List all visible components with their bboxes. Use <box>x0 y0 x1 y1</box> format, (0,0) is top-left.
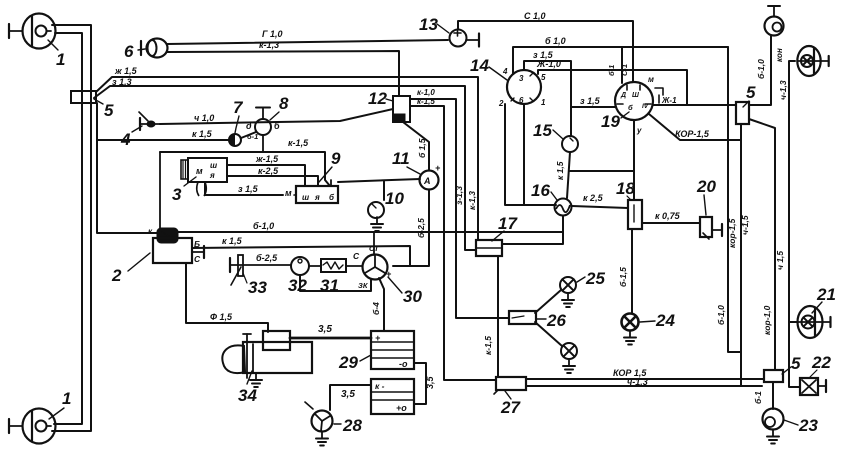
svg-text:8: 8 <box>279 94 289 113</box>
wire к 1,5 (lamp 15 to fuse 16) <box>567 152 570 198</box>
rear lamp 21 <box>798 306 823 338</box>
svg-text:к-1,5: к-1,5 <box>483 336 493 355</box>
svg-text:б-1,0: б-1,0 <box>253 221 274 231</box>
wire КОР 1,5 (bottom run) <box>526 378 764 380</box>
svg-text:кор-1,5: кор-1,5 <box>727 218 737 248</box>
thermal fuse 16 <box>555 199 572 216</box>
svg-text:3,5: 3,5 <box>341 389 355 400</box>
svg-text:23: 23 <box>798 416 818 435</box>
wire branch to fuse 10 <box>383 181 385 200</box>
lamp 25 (upper) <box>560 277 576 293</box>
wire Ф 1,5 (switch 2 to starter relay) <box>186 263 268 332</box>
wire б 1,5 (connector 12 to ammeter 11) <box>403 122 429 170</box>
svg-text:ЗК: ЗК <box>358 281 369 290</box>
connector 5 (right) <box>736 102 749 124</box>
svg-text:кон: кон <box>775 48 784 62</box>
ground switch 28 <box>312 411 333 432</box>
svg-text:22: 22 <box>811 353 831 372</box>
svg-text:б-1: б-1 <box>753 391 763 404</box>
svg-text:к-1,5: к-1,5 <box>417 97 435 106</box>
wire 32-31 <box>309 265 321 267</box>
wire б-1 (connector 5 to horn 23) <box>772 382 774 409</box>
svg-text:+: + <box>435 163 441 173</box>
fuse 10 <box>368 202 384 218</box>
svg-text:3,5: 3,5 <box>425 375 435 389</box>
junction block at switch 2 <box>157 228 178 243</box>
svg-text:м: м <box>648 75 654 84</box>
svg-text:к-1,0: к-1,0 <box>417 88 435 97</box>
svg-text:21: 21 <box>816 285 836 304</box>
svg-text:Г 1,0: Г 1,0 <box>262 29 283 39</box>
ground (switch 28) <box>321 432 323 439</box>
lamp 22 <box>800 378 818 395</box>
wire б-4 (switch 30 to battery 29) <box>379 278 384 331</box>
ammeter 11 <box>420 171 439 190</box>
svg-text:3: 3 <box>519 74 524 83</box>
fuse block 31 <box>321 259 346 272</box>
fuse block 17 <box>476 240 502 256</box>
svg-text:з-1,3: з-1,3 <box>454 186 464 205</box>
svg-text:9: 9 <box>331 149 341 168</box>
plug socket 14 <box>507 70 541 104</box>
svg-text:ч 1,0: ч 1,0 <box>194 113 214 123</box>
wire ч-1,3 (bottom run) <box>526 385 762 387</box>
svg-text:б-4: б-4 <box>371 302 381 315</box>
svg-text:17: 17 <box>498 214 518 233</box>
svg-text:32: 32 <box>288 276 307 295</box>
wire ж-1,5 (regulator 3 Ш to relay 9) <box>227 165 305 186</box>
wire fuse 16 down to fuse block 17 <box>502 216 563 244</box>
svg-text:С 1,0: С 1,0 <box>524 11 546 21</box>
ground (horn 23) <box>772 430 774 437</box>
svg-text:к 1,5: к 1,5 <box>192 129 213 139</box>
svg-text:5: 5 <box>746 83 756 102</box>
wire Г 1,0 (lamp 6 to horn 13) <box>167 40 448 44</box>
wire Ж-1,0 (socket 14 pin 5 to switch 19 right) <box>538 70 687 105</box>
svg-text:я: я <box>314 193 320 202</box>
svg-text:ч 1,5: ч 1,5 <box>775 251 785 270</box>
svg-text:+о: +о <box>396 403 407 413</box>
starter relay 9 <box>296 186 338 203</box>
connector 5 (left) <box>71 91 96 103</box>
svg-text:ш: ш <box>302 193 309 202</box>
wire ч-1,5 (right frame vertical) <box>740 124 742 386</box>
svg-text:4: 4 <box>502 67 508 76</box>
resistor 20 <box>700 217 712 237</box>
wire ч-1,3 (connector 5 diagonal down) <box>749 119 775 370</box>
horn relay 23 <box>763 409 784 430</box>
svg-text:14: 14 <box>470 56 489 75</box>
svg-text:С: С <box>353 251 360 261</box>
wire к 2,5 (fuse 16 to fuse 18) <box>572 206 628 208</box>
svg-text:ж-1,5: ж-1,5 <box>255 154 279 164</box>
svg-text:1: 1 <box>56 50 65 69</box>
svg-text:1: 1 <box>62 389 71 408</box>
svg-text:5: 5 <box>541 73 546 82</box>
svg-text:КОР-1,5: КОР-1,5 <box>675 129 710 139</box>
svg-text:Д: Д <box>620 92 626 99</box>
svg-text:33: 33 <box>248 278 267 297</box>
wire lamp 21 to frame <box>789 321 797 323</box>
wire к-1,5 (switch 8 to relay 9) <box>160 152 330 186</box>
svg-text:3: 3 <box>172 185 182 204</box>
svg-text:25: 25 <box>585 269 605 288</box>
wire pins 2/6 of socket 14 down to fuse 16 <box>505 104 556 205</box>
connector 5 (bottom right) <box>764 370 783 382</box>
svg-text:б-1,5: б-1,5 <box>618 267 628 287</box>
svg-text:б: б <box>274 121 280 131</box>
svg-text:б-1,0: б-1,0 <box>716 305 726 325</box>
svg-text:5: 5 <box>104 101 114 120</box>
svg-text:Ж-1,0: Ж-1,0 <box>536 59 561 69</box>
wire к-1,5 (fuse 17 down to connector 27) <box>497 256 499 377</box>
svg-text:12: 12 <box>368 89 387 108</box>
wire к 1,5 (switch 2 to starter relay 30) <box>192 246 410 266</box>
svg-text:13: 13 <box>419 15 438 34</box>
svg-text:м: м <box>285 188 292 198</box>
svg-text:к-1,5: к-1,5 <box>288 138 309 148</box>
svg-text:7: 7 <box>233 98 244 117</box>
wire rear lamp to frame <box>789 61 800 387</box>
svg-text:б: б <box>628 103 633 112</box>
wire У (switch 19 down to fuse 18) <box>633 120 635 200</box>
svg-text:б 1,5: б 1,5 <box>417 138 427 158</box>
svg-text:к 1,5: к 1,5 <box>555 161 565 180</box>
wire к 0,75 (fuse 18 to resistor 20) <box>642 222 700 224</box>
ground (lamp 24) <box>629 331 631 338</box>
svg-text:з 1,3: з 1,3 <box>112 77 132 87</box>
wire to ammeter 11 <box>338 179 420 182</box>
svg-text:к -: к - <box>375 381 385 391</box>
svg-text:ж 1,5: ж 1,5 <box>114 66 138 76</box>
connector 27 <box>496 377 526 390</box>
svg-text:16: 16 <box>531 181 550 200</box>
headlight 1 (bottom left) <box>23 409 56 444</box>
wire з 1,3 (left run) <box>94 86 476 250</box>
svg-text:д: д <box>246 121 252 131</box>
clearance lamp (top right) <box>765 17 784 36</box>
svg-text:кор-1,0: кор-1,0 <box>762 305 772 335</box>
wire from connector 5 down (к 1,5 branch) <box>97 103 157 233</box>
svg-text:24: 24 <box>655 311 675 330</box>
svg-text:29: 29 <box>338 353 358 372</box>
svg-text:ч-1,3: ч-1,3 <box>627 377 648 387</box>
svg-text:б-1,0: б-1,0 <box>756 59 766 79</box>
horn 13 <box>450 30 467 47</box>
svg-text:к-1,3: к-1,3 <box>259 40 279 50</box>
svg-text:26: 26 <box>546 311 566 330</box>
wire з 1,5 (socket 14 pin 3 to switch 19, lamp 15) <box>524 61 571 136</box>
svg-text:11: 11 <box>392 149 410 168</box>
svg-text:-о: -о <box>399 359 408 369</box>
wire к 1,5 (to fuse 7 / switch 8) <box>97 139 229 141</box>
wire КОР-1,5 (switch 19 to right frame) <box>649 114 741 140</box>
svg-text:+: + <box>375 333 381 343</box>
wire к-1,5 (connector 12 output, long left vertical) <box>410 106 496 380</box>
wire СТ (switch 30 to б-1,0) <box>373 232 375 255</box>
headlight 1 (top left) <box>23 14 56 49</box>
wire к-1,3 (lamp 6 to connector 12) <box>167 51 399 96</box>
wire 26 to lamp 25 (lower) <box>535 322 562 346</box>
wire ч 1,0 (switch 4 to connector 12) <box>160 109 393 124</box>
wire 31-30 <box>346 265 362 267</box>
wire б-1,0 (connector 5 to clearance lamp) <box>749 36 771 105</box>
svg-text:3,5: 3,5 <box>318 324 332 335</box>
wire б-1,0 (switch 2 to fuse 16) <box>178 231 562 233</box>
wire switch 19 to connector 5 (right) <box>653 104 736 106</box>
svg-text:2: 2 <box>498 99 504 108</box>
svg-text:ш: ш <box>210 161 217 170</box>
svg-text:А: А <box>423 176 431 186</box>
svg-text:6: 6 <box>124 42 134 61</box>
svg-text:10: 10 <box>385 189 404 208</box>
wire к-1,0 (connector 12 output) <box>410 99 509 318</box>
wire 3,5 (battery to ground switch 28) <box>330 385 371 410</box>
wire б-2,5 (ammeter 11 to starter relay 30) <box>393 190 429 266</box>
svg-text:С: С <box>194 254 201 264</box>
svg-text:б-2,5: б-2,5 <box>416 218 426 238</box>
control lamp 15 <box>562 136 578 152</box>
svg-text:20: 20 <box>696 177 716 196</box>
svg-text:к 1,5: к 1,5 <box>222 236 243 246</box>
lamp 25 (lower) <box>561 343 577 359</box>
svg-text:к 2,5: к 2,5 <box>583 193 604 203</box>
fuse 32 <box>291 257 309 275</box>
svg-text:к 0,75: к 0,75 <box>655 211 681 221</box>
wire: headlight feeds, left vertical pair <box>52 25 91 431</box>
svg-text:Ш: Ш <box>632 92 639 99</box>
wire 26 to lamp 25 (upper) <box>535 290 561 313</box>
svg-text:у: у <box>636 126 642 135</box>
wire к-2,5 (regulator 3 Я to relay 9) <box>227 176 318 186</box>
svg-text:5: 5 <box>791 354 801 373</box>
svg-text:30: 30 <box>403 287 422 306</box>
ignition switch 2 <box>153 238 192 263</box>
wire 3,5 (starter to battery 29) <box>290 337 371 340</box>
wire з 1,5 (generator to relay 9 М) <box>205 183 283 195</box>
ground (upper lamp 25) <box>567 293 569 300</box>
svg-text:2: 2 <box>111 266 122 285</box>
svg-text:27: 27 <box>500 398 521 417</box>
wire С 1,0 (horn 13 to switch 19) <box>458 21 633 82</box>
battery (lower section) <box>371 379 414 414</box>
connector 12 <box>393 96 410 122</box>
svg-text:Ф 1,5: Ф 1,5 <box>210 312 233 322</box>
svg-text:34: 34 <box>238 386 257 405</box>
wire б 1,0 (socket 14 to switch 19 / right frame) <box>513 47 728 74</box>
svg-text:ч-1,3: ч-1,3 <box>778 80 788 100</box>
ground (lower lamp 25) <box>568 359 570 366</box>
starter switch 30 <box>363 255 388 280</box>
plafond lamp 6 <box>147 39 168 58</box>
svg-text:м: м <box>196 166 203 176</box>
svg-text:б-2,5: б-2,5 <box>256 253 278 263</box>
switch 8 (turn signal) <box>255 119 271 135</box>
svg-text:Ж-1: Ж-1 <box>661 96 677 105</box>
switch 33 (plug) <box>229 258 231 272</box>
svg-text:18: 18 <box>616 179 635 198</box>
fuse 7 <box>229 134 241 146</box>
wire ЗК loop <box>300 275 371 291</box>
connector 26 <box>509 311 536 324</box>
svg-text:к-2,5: к-2,5 <box>258 166 279 176</box>
svg-text:я: я <box>209 171 215 180</box>
wire б-1,5 (fuse 18 to lamp 24) <box>631 229 633 313</box>
lighting switch 4 (plug) <box>139 118 141 130</box>
central light switch 19 <box>615 82 653 120</box>
svg-text:15: 15 <box>533 121 552 140</box>
svg-text:з 1,5: з 1,5 <box>580 96 601 106</box>
svg-text:31: 31 <box>320 276 339 295</box>
svg-text:19: 19 <box>601 112 620 131</box>
svg-text:1: 1 <box>541 98 546 107</box>
battery 29 <box>371 331 414 369</box>
ground (fuse 10) <box>376 217 378 224</box>
lamp 24 <box>622 314 639 331</box>
fuse 18 <box>628 200 642 229</box>
voltage regulator 3 <box>188 158 227 182</box>
svg-text:з 1,5: з 1,5 <box>238 184 259 194</box>
rear lamp (top right) <box>797 46 820 76</box>
svg-text:28: 28 <box>342 416 362 435</box>
starter 34 <box>263 331 290 350</box>
svg-text:б 1,0: б 1,0 <box>545 36 566 46</box>
wire 3,5 (battery 29 to battery 28 section) <box>414 363 426 404</box>
svg-text:ч-1,5: ч-1,5 <box>740 215 750 235</box>
wire кор-1,5 (right frame vertical) <box>728 47 741 352</box>
svg-text:к-1,3: к-1,3 <box>467 191 477 210</box>
wire ж 1,5 (left run to fuse 17) <box>96 77 478 240</box>
ground (starter 34) <box>255 373 257 380</box>
